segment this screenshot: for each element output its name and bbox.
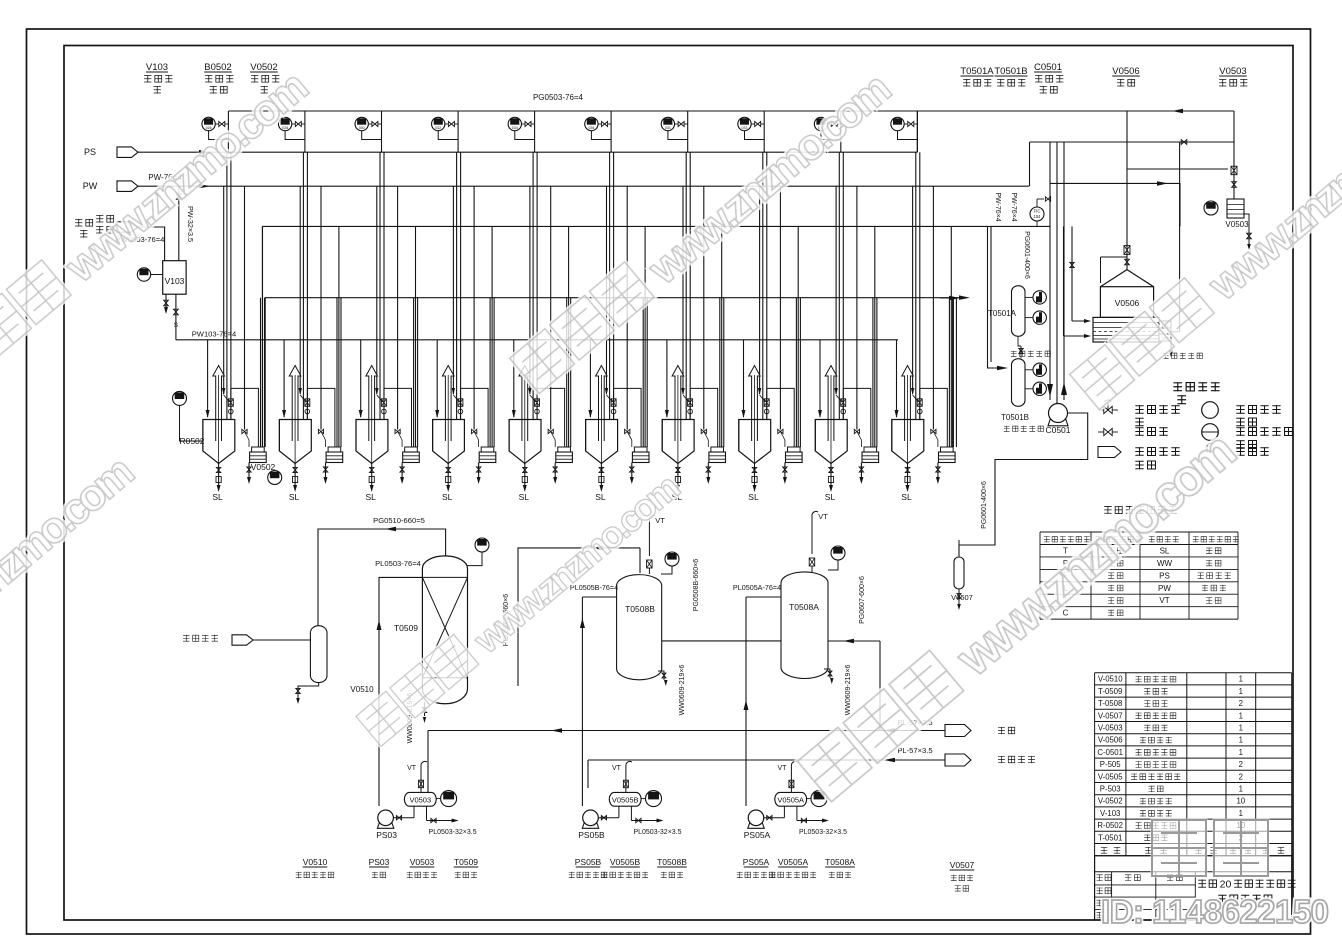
drum outlet unit 4 — [478, 463, 480, 479]
pump PS03 suction piping — [393, 817, 414, 819]
svg-text:1: 1 — [1239, 809, 1243, 818]
watermark big ZhiMo bottom right — [1152, 820, 1206, 876]
generator unit 2 piping verticals — [302, 152, 304, 419]
svg-text:PW-76×4: PW-76×4 — [1010, 192, 1017, 221]
legend text stop valve — [1135, 427, 1143, 436]
generator unit 3 inner line — [376, 186, 378, 394]
instrument PG-9 (circle gauge) — [814, 117, 827, 130]
valve stack right of vessel unit 2 — [306, 388, 308, 419]
drum outlet unit 10 — [937, 463, 939, 479]
vent VT at V0505B — [625, 771, 627, 792]
svg-text:T0508B: T0508B — [625, 604, 655, 614]
legend text drawing connector — [1135, 447, 1143, 456]
wire overhead connector unit 5 — [537, 388, 565, 447]
wire PG0510 overhead line — [318, 529, 446, 626]
wire overhead connector unit 8 — [767, 388, 795, 447]
wire right drop to recycle — [1170, 341, 1172, 352]
valve on drum feed unit 1 — [242, 429, 247, 433]
generator vessel R0502-9 body — [815, 420, 847, 464]
valve at PG-10 — [908, 122, 914, 127]
wire drop pipe unit 3 — [381, 111, 383, 152]
wire PW branch to V103 — [178, 186, 180, 261]
generator unit 8 center dip line — [754, 375, 756, 464]
svg-text:PG0503-76=4: PG0503-76=4 — [533, 93, 584, 102]
wire compressor suction/discharge verticals — [1049, 142, 1051, 400]
valve stack right of vessel unit 10 — [919, 388, 921, 419]
svg-text:V0502: V0502 — [251, 462, 276, 472]
wire T0508A feed — [746, 596, 781, 598]
wire T0509 feed from pump — [379, 577, 422, 806]
svg-text:V0505B: V0505B — [610, 857, 641, 867]
generator unit 6 piping verticals — [609, 152, 611, 419]
svg-text:10: 10 — [1236, 797, 1245, 806]
svg-text:PL-57×3.5: PL-57×3.5 — [897, 746, 932, 755]
generator unit 7 vent arrow (hollow) — [672, 366, 684, 442]
generator vessel R0502-3 body — [356, 420, 388, 464]
wire overhead connector unit 6 — [614, 388, 642, 447]
generator unit 5 center dip line — [524, 375, 526, 464]
generator unit 4 center dip line — [447, 375, 449, 464]
wire top header PG0503 — [228, 110, 1234, 112]
instruments at T0501B — [1025, 369, 1033, 371]
instrument at V0502 — [268, 471, 282, 485]
wire drop pipe unit 6 — [610, 111, 612, 152]
svg-text:PG0508B-660×6: PG0508B-660×6 — [693, 559, 700, 611]
svg-text:PW-32×3.5: PW-32×3.5 — [186, 206, 195, 242]
valve at PG-8 — [755, 122, 761, 127]
wire compressor discharge loop — [959, 413, 1088, 557]
generator unit 8 inner line — [759, 186, 761, 394]
wire drop pipe unit 1 — [227, 111, 229, 152]
svg-text:T0509: T0509 — [394, 623, 418, 633]
wire drop pipe unit 4 — [457, 111, 459, 152]
wire overhead connector unit 4 — [460, 388, 488, 447]
valve on V103 inlet — [176, 194, 181, 200]
wire tank feed risers — [1071, 226, 1073, 321]
arrow up on compressor line — [1061, 382, 1067, 395]
generator unit 4 inner line — [452, 186, 454, 394]
pump PS05A discharge piping — [796, 806, 798, 820]
svg-text:VT: VT — [1159, 596, 1169, 605]
svg-text:PW103-76=4: PW103-76=4 — [192, 330, 237, 339]
node recycle water feed — [75, 219, 82, 227]
equipment table grid — [1095, 672, 1292, 674]
svg-text:VT: VT — [778, 765, 788, 772]
generator vessel R0502-4 body — [433, 420, 465, 464]
instrument piping table title — [1104, 506, 1111, 514]
svg-text:V0505A: V0505A — [778, 857, 809, 867]
instrument piping table header — [1044, 536, 1050, 542]
wire drop pipe unit 9 — [840, 111, 842, 152]
safety seal drum V0502-5 — [558, 447, 571, 452]
svg-text:T0501A: T0501A — [988, 309, 1017, 318]
generator unit 9 center dip line — [830, 375, 832, 464]
svg-text:036: 036 — [588, 126, 594, 130]
svg-text:V103: V103 — [146, 62, 168, 73]
safety seal drum V0502-9 — [864, 447, 877, 452]
generator unit 9 vent arrow (hollow) — [825, 366, 837, 442]
arrow on top header — [1172, 109, 1183, 113]
drum outlet unit 5 — [554, 463, 556, 479]
generator unit 1 piping verticals — [226, 152, 228, 419]
wire overhead connector unit 3 — [384, 388, 412, 447]
wire instrument connector 1 — [209, 131, 229, 140]
generator unit 8 vent arrow (hollow) — [749, 366, 761, 442]
generator unit 7 piping verticals — [685, 152, 687, 419]
filter room flag — [183, 635, 189, 642]
svg-text:T0501B: T0501B — [994, 66, 1027, 77]
safety seal drum V0502-7 — [711, 447, 724, 452]
svg-text:20: 20 — [1220, 879, 1232, 891]
tank inlet arrows — [1072, 320, 1086, 322]
svg-text:V-0505: V-0505 — [1098, 772, 1123, 781]
instrument PG-10 (circle gauge) — [891, 117, 904, 130]
svg-text:032: 032 — [435, 126, 441, 130]
legend field instrument symbol — [1202, 402, 1219, 419]
vessel T0508A — [781, 572, 828, 679]
svg-text:V0503: V0503 — [1225, 220, 1249, 229]
generator unit 10 inner line — [912, 186, 914, 394]
valve on drum feed unit 7 — [701, 429, 706, 433]
valve at PG-6 — [602, 122, 608, 127]
svg-text:S: S — [174, 322, 179, 329]
instrument at T0509 — [475, 538, 489, 552]
arrow down on compressor line — [1047, 384, 1053, 397]
V0507 drain — [958, 589, 960, 604]
svg-text:PG0601-400×6: PG0601-400×6 — [981, 481, 988, 529]
svg-text:031: 031 — [665, 126, 671, 130]
vent VT at V0503 — [420, 771, 422, 792]
generator vessel R0502-2 body — [279, 420, 311, 464]
wire T0501A feed pair — [952, 298, 954, 447]
valve at PG-9 — [831, 122, 837, 127]
svg-text:V0505A: V0505A — [777, 796, 804, 805]
wire drop pipe unit 2 — [304, 111, 306, 152]
wire distribution header B y=298 — [265, 298, 965, 447]
title block outline — [1095, 856, 1292, 920]
legend control valve symbol — [1104, 406, 1112, 413]
wire instrument connector 4 — [438, 131, 458, 140]
svg-text:B0502: B0502 — [204, 62, 231, 73]
generator unit 2 bottom valve — [294, 464, 296, 488]
safety seal drum V0502-2 — [328, 447, 341, 452]
svg-text:034: 034 — [512, 126, 518, 130]
generator vessel R0502-1 body — [203, 420, 235, 464]
valve above FIC104 — [1037, 198, 1044, 200]
instrument PG-2 (circle gauge) — [278, 117, 291, 130]
instrument at V103 — [137, 268, 150, 281]
drum outlet unit 3 — [401, 463, 403, 479]
svg-text:FIC: FIC — [1034, 209, 1041, 214]
pump PS03 — [377, 823, 393, 829]
vessel V103 (head tank) — [163, 261, 186, 295]
flag hypochlorite — [945, 754, 971, 766]
svg-text:V0510: V0510 — [303, 857, 328, 867]
svg-text:1: 1 — [1239, 687, 1243, 696]
instrument at V0505A — [811, 791, 827, 807]
instrument PG-5 (circle gauge) — [508, 117, 521, 130]
instrument PG-1 (circle gauge) — [202, 117, 215, 130]
tank V0503 — [404, 792, 436, 806]
valve stack right of vessel unit 1 — [230, 388, 232, 419]
wire drop pipe unit 7 — [687, 111, 689, 152]
title block row labels — [1096, 888, 1102, 895]
wire overhead connector unit 2 — [307, 388, 335, 447]
gas holder V0506 body — [1100, 287, 1153, 318]
svg-text:T-0501: T-0501 — [1098, 833, 1122, 842]
svg-text:T0501A: T0501A — [960, 66, 994, 77]
wire T0501A inlet arrow — [940, 297, 958, 299]
wire hypochlorite drop — [587, 760, 589, 788]
generator unit 3 vent arrow (hollow) — [366, 366, 378, 442]
valve at PG-1 — [219, 122, 225, 127]
wire instrument connector 6 — [591, 131, 611, 140]
label to-recycle-pool A — [1011, 351, 1017, 357]
svg-text:PW-76×4: PW-76×4 — [994, 192, 1001, 221]
svg-text:2: 2 — [1239, 760, 1243, 769]
title block headers — [1096, 874, 1102, 881]
safety seal drum V0502-4 — [481, 447, 494, 452]
valve on drum feed unit 5 — [548, 429, 553, 433]
wire V0507 top — [958, 540, 960, 557]
svg-text:P-505: P-505 — [1100, 760, 1121, 769]
wire PW103 header line — [176, 339, 898, 341]
svg-text:PS03: PS03 — [376, 830, 397, 840]
svg-text:VT: VT — [407, 765, 417, 772]
wire V0506 top feed — [1126, 111, 1128, 270]
svg-text:T0508B: T0508B — [657, 857, 687, 867]
generator unit 10 center dip line — [907, 375, 909, 464]
generator unit 8 bottom valve — [754, 464, 756, 488]
generator unit 2 vent arrow (hollow) — [289, 366, 301, 442]
vessel T0501A — [1012, 286, 1026, 337]
svg-text:PS05B: PS05B — [578, 830, 605, 840]
arrow end header B — [959, 295, 970, 300]
pump PS05A — [748, 823, 764, 829]
valve on drum feed unit 9 — [854, 429, 859, 433]
wire PS main line — [138, 151, 917, 153]
svg-text:SL: SL — [1160, 547, 1170, 556]
svg-text:2: 2 — [1239, 772, 1243, 781]
safety seal drum V0502-3 — [405, 447, 418, 452]
svg-text:V0503: V0503 — [410, 857, 435, 867]
wire drop pipe unit 10 — [916, 111, 918, 152]
generator unit 5 bottom valve — [524, 464, 526, 488]
drum outlet unit 1 — [248, 463, 250, 479]
svg-text:P-503: P-503 — [1100, 785, 1121, 794]
generator unit 10 feed line with arrow — [896, 340, 898, 417]
svg-text:SL: SL — [442, 492, 453, 502]
svg-text:SL: SL — [901, 492, 912, 502]
instrument at T0508A — [831, 546, 845, 560]
svg-text:SL: SL — [748, 492, 759, 502]
svg-text:PG0607-600×6: PG0607-600×6 — [859, 576, 866, 624]
instrument PG-3 (circle gauge) — [355, 117, 368, 130]
drum outlet unit 9 — [860, 463, 862, 479]
generator unit 10 bottom valve — [907, 464, 909, 488]
tank V0505B — [609, 792, 641, 806]
valve stack right of vessel unit 3 — [383, 388, 385, 419]
svg-text:T-0508: T-0508 — [1098, 699, 1122, 708]
vessel V0507 separator — [954, 557, 964, 589]
generator unit 4 piping verticals — [456, 152, 458, 419]
watermark diagonal bands — [0, 57, 1342, 808]
drum outlet unit 8 — [784, 463, 786, 479]
wire T0508B to T0508A line — [662, 640, 781, 642]
svg-text:PS03: PS03 — [369, 857, 390, 867]
wire instrument connector 5 — [515, 131, 535, 140]
wire line y=169 to riser — [1127, 168, 1228, 170]
vessel V0510 separator — [310, 626, 327, 683]
T0508B bottom right drain — [658, 671, 664, 680]
instrument PG-8 (circle gauge) — [738, 117, 751, 130]
wire instrument connector 8 — [745, 131, 765, 140]
instrument PG-7 (circle gauge) — [661, 117, 674, 130]
generator unit 6 bottom valve — [600, 464, 602, 488]
generator unit 9 piping verticals — [838, 152, 840, 419]
safety seal drum V0502-8 — [788, 447, 801, 452]
pump PS05A suction piping — [764, 817, 785, 819]
gas holder water tank — [1093, 317, 1159, 342]
svg-text:PL0503-32×3.5: PL0503-32×3.5 — [799, 829, 847, 836]
wire caustic supply line — [428, 730, 945, 732]
generator unit 1 inner line — [223, 186, 225, 394]
valve on drum feed unit 3 — [395, 429, 400, 433]
svg-text:WW0609-219×6: WW0609-219×6 — [845, 665, 852, 716]
svg-text:1: 1 — [1239, 711, 1243, 720]
wire drop pipe unit 5 — [534, 111, 536, 152]
svg-text:V0503: V0503 — [409, 796, 431, 805]
generator unit 4 bottom valve — [447, 464, 449, 488]
safety seal drum V0502-10 — [941, 447, 954, 452]
legend vent symbol — [1207, 443, 1213, 453]
generator unit 1 bottom valve — [218, 464, 220, 488]
tank right chamber — [1159, 321, 1171, 341]
svg-text:C0501: C0501 — [1034, 62, 1062, 73]
vessel V0503 (seal drum) — [1227, 199, 1244, 218]
V0503 outlet — [1244, 214, 1249, 232]
valve at PG-7 — [678, 122, 684, 127]
svg-text:SL: SL — [365, 492, 376, 502]
instrument at V0503 — [1204, 201, 1218, 215]
svg-text:PG0510-660=5: PG0510-660=5 — [373, 516, 425, 525]
wire right riser x=1179 — [1179, 142, 1181, 332]
generator unit 6 vent arrow (hollow) — [596, 366, 608, 442]
svg-text:033: 033 — [742, 126, 748, 130]
svg-text:T0501B: T0501B — [1001, 413, 1029, 422]
wire overhead connector unit 1 — [231, 388, 259, 447]
legend flag symbol — [1098, 447, 1121, 458]
title block grid — [1095, 884, 1196, 886]
label hypochlorite — [998, 756, 1005, 763]
generator unit 5 inner line — [529, 186, 531, 394]
svg-text:R-0502: R-0502 — [1097, 821, 1123, 830]
generator unit 4 vent arrow (hollow) — [442, 366, 454, 442]
flag caustic — [945, 725, 971, 737]
legend text auto control valve — [1135, 405, 1143, 414]
valve stack right of vessel unit 4 — [459, 388, 461, 419]
wire T0501B feed — [988, 226, 1006, 368]
svg-text:T-0509: T-0509 — [1098, 687, 1122, 696]
svg-text:2: 2 — [1239, 699, 1243, 708]
valve stack right of vessel unit 6 — [613, 388, 615, 419]
wire V0506 side loop — [1100, 257, 1102, 283]
svg-text:C-0501: C-0501 — [1097, 748, 1123, 757]
svg-text:PL0503-76=4: PL0503-76=4 — [375, 559, 421, 568]
legend text field mounted — [1236, 405, 1244, 414]
svg-text:T0508A: T0508A — [825, 857, 855, 867]
generator unit 2 feed line with arrow — [283, 340, 285, 417]
pump PS05B suction piping — [598, 817, 619, 819]
svg-text:PS05B: PS05B — [575, 857, 602, 867]
drum outlet unit 7 — [707, 463, 709, 479]
svg-text:C0501: C0501 — [1045, 425, 1070, 435]
safety seal drum V0502-6 — [634, 447, 647, 452]
compressor C0501 — [1048, 419, 1068, 426]
check valve on V103 outlet — [174, 309, 179, 315]
column T0509 body — [422, 556, 467, 704]
generator unit 7 feed line with arrow — [666, 340, 668, 417]
valve at PG-3 — [372, 122, 378, 127]
svg-text:T0508A: T0508A — [789, 602, 819, 612]
T0508A bottom right drain — [824, 669, 830, 678]
svg-text:1: 1 — [1239, 785, 1243, 794]
generator unit 6 feed line with arrow — [589, 340, 591, 417]
wire overhead to T0508B — [518, 548, 640, 686]
drum outlet unit 6 — [631, 463, 633, 479]
svg-text:PW: PW — [83, 181, 98, 191]
svg-text:V103: V103 — [165, 276, 185, 286]
svg-text:SL: SL — [595, 492, 606, 502]
svg-text:WW: WW — [1157, 559, 1173, 568]
vessel T0508B — [617, 575, 662, 680]
generator unit 8 feed line with arrow — [743, 340, 745, 417]
svg-text:V-0503: V-0503 — [1098, 724, 1123, 733]
valves on V0503 riser — [1231, 166, 1237, 175]
generator unit 3 bottom valve — [371, 464, 373, 488]
instrument at V0503 — [441, 791, 457, 807]
svg-text:PS: PS — [1159, 571, 1170, 580]
valve at PG-2 — [295, 122, 301, 127]
valve stack right of vessel unit 5 — [536, 388, 538, 419]
generator unit 5 piping verticals — [532, 152, 534, 419]
generator unit 7 bottom valve — [677, 464, 679, 488]
wire line y=142 to V0503 — [1030, 141, 1235, 143]
generator unit 7 inner line — [682, 186, 684, 394]
instruments at T0501A — [1025, 296, 1033, 298]
valve stack right of vessel unit 7 — [689, 388, 691, 419]
pump PS03 discharge piping — [426, 806, 428, 820]
svg-text:1: 1 — [1239, 736, 1243, 745]
equipment table header row — [1101, 847, 1107, 854]
generator unit 3 feed line with arrow — [360, 340, 362, 417]
instrument at V0505B — [646, 791, 662, 807]
wire instrument connector 3 — [362, 131, 382, 140]
wire line y=183 with arrow — [1050, 183, 1180, 226]
generator unit 1 feed line with arrow — [207, 340, 209, 417]
instrument PG-4 (circle gauge) — [432, 117, 445, 130]
valve on drum feed unit 6 — [625, 429, 630, 433]
generator unit 6 inner line — [606, 186, 608, 394]
wire V0503 riser — [1233, 111, 1235, 199]
svg-text:V0503: V0503 — [1219, 66, 1246, 77]
generator unit 3 piping verticals — [379, 152, 381, 419]
generator vessel R0502-5 body — [509, 420, 541, 464]
svg-text:V0507: V0507 — [951, 593, 973, 602]
svg-text:VT: VT — [612, 765, 622, 772]
label caustic — [998, 727, 1005, 734]
legend control-room instrument symbol — [1202, 424, 1219, 441]
